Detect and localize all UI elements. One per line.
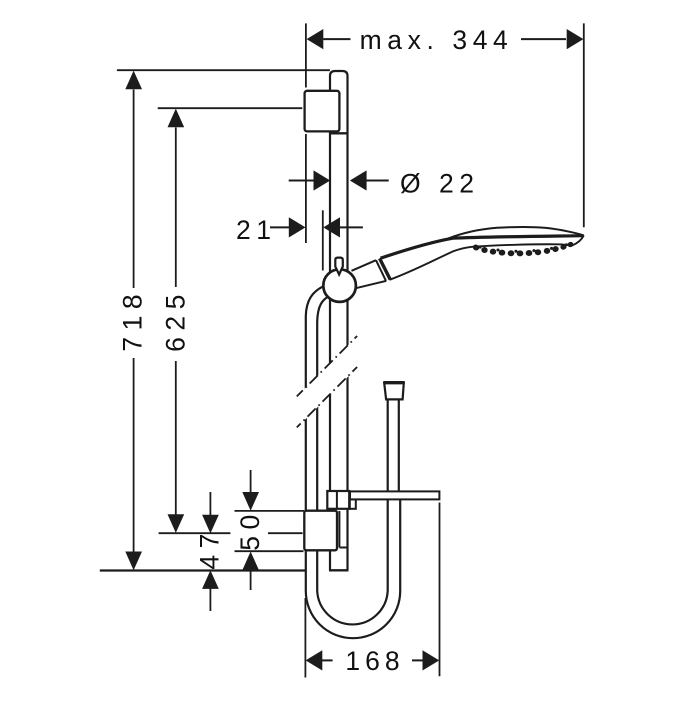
joint band bbox=[376, 260, 386, 281]
dimension 168 line + arrows bbox=[322, 659, 333, 661]
dimension 718 line + arrows bbox=[133, 90, 135, 289]
rod sleeve edge below top bracket bbox=[330, 132, 348, 134]
handle cone lower edge into face left rim and band top bbox=[390, 235, 584, 279]
hand shower handle (circle to joint band) bbox=[352, 260, 377, 271]
dimension max. 344 extension line left (x=306) bbox=[305, 23, 307, 87]
handle cone upper edge continuing into head accent line (thick) bbox=[381, 236, 583, 259]
spray nozzles bbox=[472, 241, 574, 256]
dimension 21 extension line bbox=[322, 210, 324, 270]
hose outer (left down, U-loop, right up) bbox=[306, 287, 400, 638]
break dash-dot line upper bbox=[297, 336, 357, 396]
dimension 718 reference line bottom bbox=[100, 569, 307, 571]
dimension Ø 22 line + arrows bbox=[289, 180, 314, 182]
wall bar bottom cap bbox=[329, 569, 349, 571]
shelf clamp on rod bbox=[327, 491, 349, 509]
dimension 47 arrows (outside) bbox=[209, 492, 211, 515]
wall bar rod bbox=[330, 71, 348, 570]
dimension 625 line + arrows bbox=[175, 128, 177, 288]
svg-text:21: 21 bbox=[236, 215, 276, 245]
slider circle (hand shower holder) bbox=[323, 269, 356, 302]
bottom bracket rod clamp piece bbox=[338, 511, 340, 548]
svg-text:max. 344: max. 344 bbox=[360, 25, 514, 55]
svg-text:50: 50 bbox=[235, 508, 265, 550]
dimension 625 reference line top bbox=[158, 107, 303, 109]
hose end cone connector bbox=[384, 383, 404, 400]
dimension 50 reference lines bbox=[235, 510, 305, 512]
svg-text:47: 47 bbox=[194, 527, 224, 569]
dimension 50 arrows (outside) bbox=[250, 470, 252, 493]
break dash-dot line lower bbox=[297, 367, 357, 427]
top wall bracket bbox=[305, 91, 340, 132]
dimension 168 extension lines bbox=[304, 598, 306, 678]
dimension max. 344 extension line right (x=584) bbox=[583, 23, 585, 227]
shower head top outline bbox=[448, 227, 584, 239]
bottom wall bracket bbox=[304, 511, 337, 551]
svg-text:718: 718 bbox=[117, 288, 147, 352]
svg-text:Ø 22: Ø 22 bbox=[400, 168, 479, 198]
dimension 21 right arrow over rod bbox=[323, 217, 340, 237]
soap shelf bar bbox=[350, 499, 356, 509]
hose inner bbox=[317, 296, 388, 624]
slider knob pin bbox=[335, 258, 343, 275]
dimension 718 reference line top bbox=[117, 69, 330, 71]
svg-text:625: 625 bbox=[160, 288, 190, 352]
dimension max. 344 line + arrows bbox=[323, 38, 350, 40]
hose tube above shelf (right) bbox=[398, 399, 400, 491]
dimension 625 reference line bottom (also 47 top ref) bbox=[159, 532, 231, 534]
break band (rod interruption) bbox=[296, 335, 359, 429]
svg-text:168: 168 bbox=[345, 646, 404, 676]
